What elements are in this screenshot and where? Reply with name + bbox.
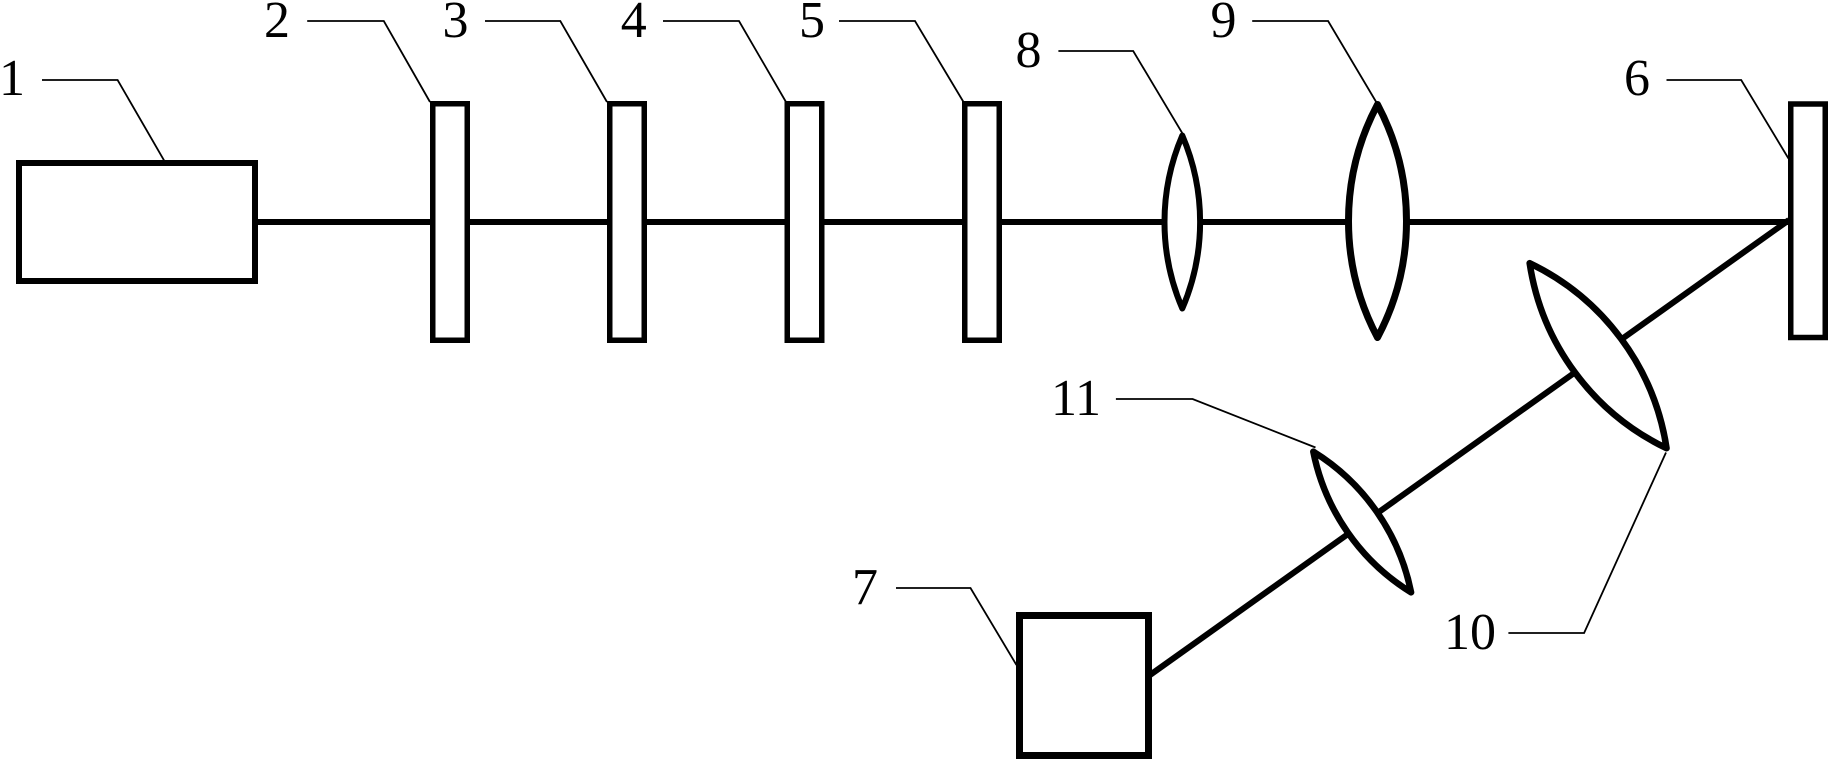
svg-text:11: 11 [1051, 370, 1101, 427]
leader line for label 9 [1252, 21, 1376, 103]
leader line for label 8 [1058, 51, 1182, 134]
leader line for label 3 [485, 21, 607, 102]
label 6 [1624, 50, 1650, 107]
leader line for label 5 [839, 21, 964, 102]
mirror 6 [1791, 104, 1826, 338]
lens 10 (tilted) [1507, 246, 1690, 465]
label 3 [443, 0, 469, 49]
plate 2 [433, 104, 468, 341]
leader line for label 7 [896, 588, 1017, 665]
leader line for label 2 [307, 21, 430, 102]
leader line for label 1 [42, 80, 164, 160]
svg-text:7: 7 [852, 559, 878, 616]
label 5 [799, 0, 825, 49]
plate 3 [610, 104, 645, 341]
leader line for label 4 [663, 21, 786, 102]
lens 8 [1164, 136, 1200, 309]
svg-text:4: 4 [621, 0, 647, 49]
lens 11 (tilted) [1299, 441, 1426, 602]
label 10 [1444, 604, 1496, 661]
svg-text:8: 8 [1016, 22, 1042, 79]
leader line for label 10 [1508, 453, 1666, 634]
wire: main horizontal beam from laser 1 to mirror 6 [258, 219, 1790, 225]
leader line for label 6 [1667, 80, 1789, 159]
label 7 [852, 559, 878, 616]
laser box 1 [19, 163, 255, 281]
detector box 7 [1020, 616, 1149, 756]
lens 9 [1348, 105, 1406, 338]
leader line for label 11 [1116, 399, 1316, 448]
plate 5 [965, 104, 1000, 341]
svg-text:6: 6 [1624, 50, 1650, 107]
svg-text:9: 9 [1211, 0, 1237, 49]
svg-text:2: 2 [264, 0, 290, 49]
svg-text:1: 1 [0, 50, 25, 107]
wire: diagonal reflected beam from mirror 6 to detector 7 [1150, 220, 1789, 675]
svg-text:10: 10 [1444, 604, 1496, 661]
label 2 [264, 0, 290, 49]
label 8 [1016, 22, 1042, 79]
label 11 [1051, 370, 1101, 427]
label 4 [621, 0, 647, 49]
svg-text:3: 3 [443, 0, 469, 49]
svg-text:5: 5 [799, 0, 825, 49]
label 9 [1211, 0, 1237, 49]
label 1 [0, 50, 25, 107]
plate 4 [787, 104, 822, 341]
